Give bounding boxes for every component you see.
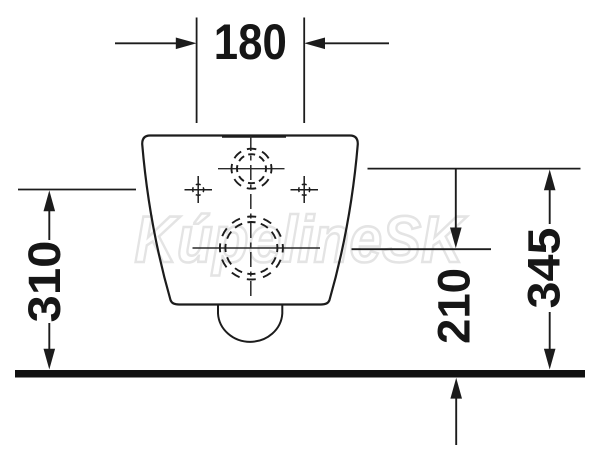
dim 310 extension line bbox=[18, 189, 136, 191]
dim 310 line upper segment bbox=[48, 211, 50, 240]
svg-text:210: 210 bbox=[429, 268, 480, 344]
right fixing hole crosshair bbox=[291, 176, 319, 203]
dim 345 lower arrow bbox=[544, 349, 556, 370]
floor line bbox=[15, 370, 585, 378]
inlet crosshair horizontal bbox=[218, 168, 285, 170]
svg-text:180: 180 bbox=[214, 14, 287, 70]
dim 210 upper line bbox=[455, 169, 457, 230]
dim 180 extension line left bbox=[196, 18, 198, 124]
dim 345 upper arrow bbox=[544, 170, 556, 191]
dim 345 lower line segment bbox=[549, 312, 551, 351]
svg-text:345: 345 bbox=[519, 228, 570, 309]
dim 345 upper line segment bbox=[549, 188, 551, 224]
vertical centerline bbox=[250, 136, 252, 296]
outlet inner dashed circle bbox=[225, 222, 277, 274]
dim 180 left arrow bbox=[115, 42, 178, 44]
dim 310 line lower segment bbox=[48, 323, 50, 350]
left fixing hole crosshair bbox=[185, 176, 213, 203]
dim 180 right arrow bbox=[323, 42, 389, 44]
inlet outer dashed circle bbox=[232, 149, 272, 189]
dim 180 extension line right bbox=[303, 18, 305, 124]
dim 345 extension line bbox=[368, 168, 581, 170]
dim 210 extension line bbox=[352, 248, 492, 250]
dim 310 upper arrow bbox=[44, 190, 56, 211]
dim 210 down arrow bbox=[450, 228, 462, 249]
outlet outer dashed circle bbox=[220, 217, 283, 280]
dim 210 lower line below floor bbox=[455, 396, 457, 445]
dim 210 up arrow bbox=[450, 378, 462, 399]
inlet inner dashed circle bbox=[237, 154, 266, 183]
dim 310 lower arrow bbox=[44, 349, 56, 370]
svg-text:KúpelineSK: KúpelineSK bbox=[135, 202, 468, 276]
top edge hinge segment bbox=[222, 135, 286, 137]
svg-text:310: 310 bbox=[19, 241, 70, 323]
outlet bump bbox=[218, 306, 282, 342]
outlet crosshair horizontal bbox=[193, 247, 321, 249]
toilet body outline bbox=[142, 136, 358, 305]
